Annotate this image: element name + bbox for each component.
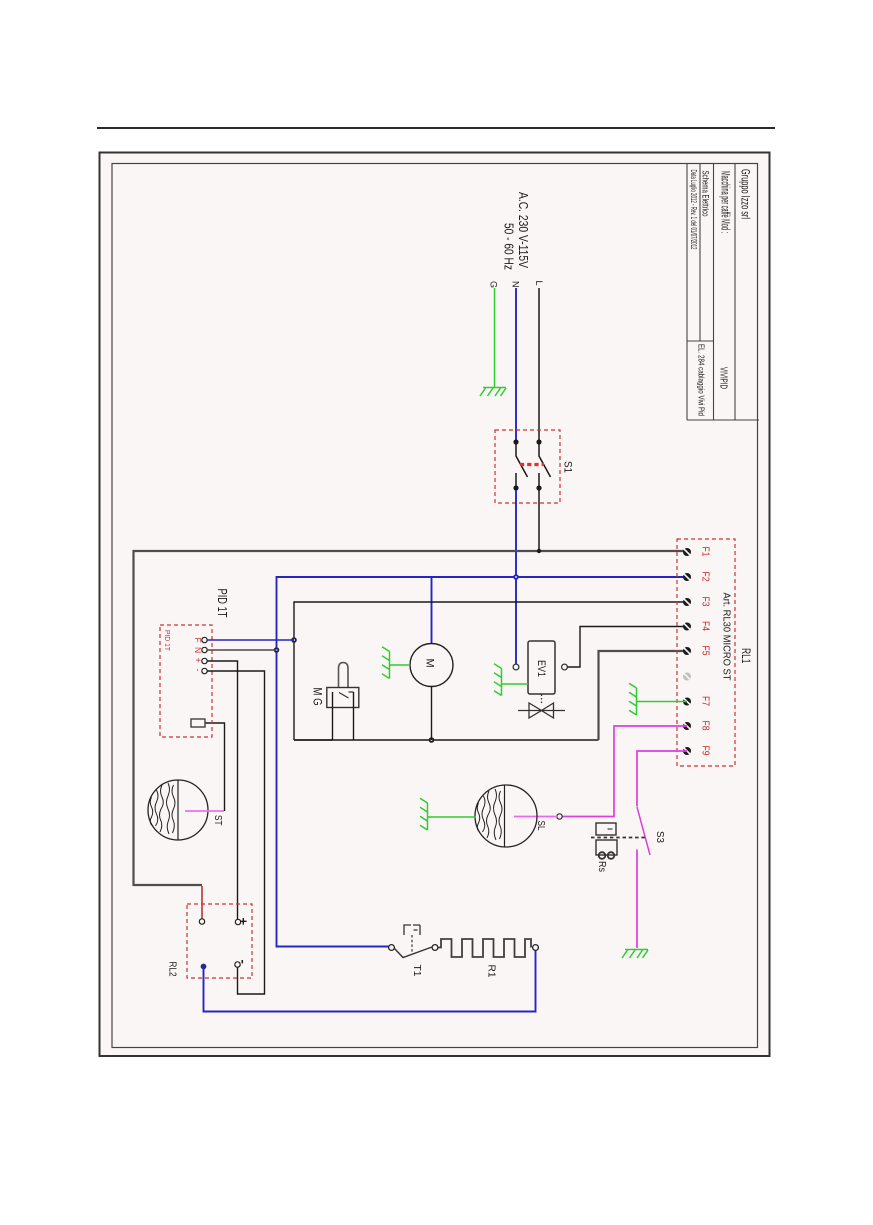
- wire F8 to SL: [562, 726, 687, 817]
- svg-text:50 - 60 Hz: 50 - 60 Hz: [502, 223, 516, 270]
- svg-text:+: +: [193, 658, 203, 663]
- svg-text:L: L: [534, 281, 544, 286]
- svg-text:F: F: [193, 638, 203, 643]
- node N junction S1: [513, 574, 519, 580]
- RL2 terminal plus: [235, 919, 240, 924]
- node motor junction: [429, 737, 435, 743]
- svg-text:F9: F9: [700, 746, 711, 756]
- PID terminal minus: [202, 668, 207, 673]
- valve outlet symbol: [518, 695, 565, 719]
- RL1 terminal F1: [683, 548, 691, 556]
- svg-text:R1: R1: [486, 965, 498, 978]
- svg-text:F3: F3: [700, 597, 711, 607]
- svg-text:-: -: [193, 669, 203, 672]
- wire PID N: [208, 649, 277, 651]
- svg-text:F7: F7: [700, 696, 711, 706]
- ground EV1: [494, 664, 502, 696]
- svg-text:VIVIPID: VIVIPID: [718, 367, 729, 389]
- ground motor: [382, 647, 390, 679]
- svg-text:EL. 284 cablaggio Vivi Pid: EL. 284 cablaggio Vivi Pid: [697, 344, 707, 416]
- ST water squiggles: [150, 783, 175, 834]
- drawing outer border frame: [100, 153, 770, 1057]
- drawing inner border frame: [112, 164, 758, 1048]
- page top rule: [97, 127, 775, 129]
- wire F9 to S3: [637, 751, 687, 807]
- wire SL ground: [428, 816, 476, 818]
- title block grid: [687, 164, 759, 421]
- PID terminal N: [202, 647, 207, 652]
- wire S3 to ground: [636, 850, 638, 949]
- wire ST magenta link: [185, 810, 224, 812]
- RL2 terminal out: [201, 964, 207, 970]
- wire F5 rail: [599, 651, 688, 740]
- wire MG pin 1: [332, 692, 334, 740]
- PID terminal plus: [202, 658, 207, 663]
- RL1 terminal F3: [683, 598, 691, 606]
- wire red to RL2: [201, 886, 203, 919]
- switch S1 enclosure: [495, 430, 560, 503]
- wire PID minus: [208, 671, 265, 994]
- RL1 terminal F5: [683, 647, 691, 655]
- svg-text:N: N: [193, 647, 203, 653]
- controller PID1T enclosure: [160, 625, 212, 737]
- RL1 terminal F7: [683, 698, 691, 706]
- node N junction PID: [274, 647, 280, 653]
- wire SL link: [514, 816, 557, 818]
- boiler temp sensor ST body: [148, 780, 208, 840]
- svg-text:F1: F1: [700, 547, 711, 557]
- wire bus corner to MG: [294, 739, 333, 741]
- switch S1 pole 2: [539, 444, 551, 486]
- RL1 terminal F8: [683, 722, 691, 730]
- heater R1 right terminal: [533, 945, 539, 951]
- switch S1 mechanical link: [520, 463, 544, 466]
- svg-text:Data Luglio 2012 - Rev. 1 del: Data Luglio 2012 - Rev. 1 del 01/07/2012: [689, 170, 698, 250]
- RL1 terminal F6 ghost: [683, 673, 691, 681]
- boiler level sensor SL body: [475, 785, 537, 847]
- ground SL: [420, 798, 428, 830]
- svg-text:T1: T1: [411, 965, 423, 977]
- wire PID F: [208, 639, 295, 641]
- EV1 pin left: [513, 664, 519, 670]
- wire G input: [494, 288, 496, 387]
- node F junction PID: [291, 637, 297, 643]
- ST chord: [177, 781, 179, 840]
- node L to F1: [537, 549, 541, 553]
- relay RL1 enclosure: [677, 539, 735, 766]
- switch MG blade: [339, 692, 354, 698]
- RL1 terminal F4: [683, 623, 691, 631]
- wire F4 rail: [568, 627, 688, 668]
- RL2 terminal minus: [235, 962, 240, 967]
- svg-text:PID 1T: PID 1T: [163, 630, 172, 651]
- svg-text:A.C. 230 V-115V: A.C. 230 V-115V: [516, 192, 530, 269]
- wire bottom bus: [294, 739, 599, 741]
- svg-text:S3: S3: [654, 831, 666, 843]
- SL chord: [504, 786, 506, 847]
- wire F3 rail: [294, 602, 687, 740]
- svg-text:EV1: EV1: [535, 660, 547, 677]
- svg-text:S1: S1: [562, 461, 574, 473]
- svg-text:Macchina per caffè Mod :: Macchina per caffè Mod :: [719, 171, 731, 233]
- svg-text:F2: F2: [700, 572, 711, 582]
- ground F7: [629, 683, 637, 715]
- wire PID plus: [208, 661, 238, 919]
- svg-text:F8: F8: [700, 721, 711, 731]
- RL1 terminal F2: [683, 573, 691, 581]
- PID probe body: [191, 719, 205, 727]
- wire L input: [538, 288, 540, 441]
- wire motor ground: [390, 664, 410, 666]
- wire MG pin 2: [353, 692, 355, 740]
- svg-text:G: G: [489, 281, 499, 288]
- svg-text:PID 1T: PID 1T: [215, 589, 230, 618]
- wire N input: [515, 288, 517, 441]
- svg-text:RL1: RL1: [739, 648, 753, 664]
- thermostat T1 blade: [395, 947, 433, 958]
- switch MG lever: [339, 663, 349, 688]
- EV1 pin right: [562, 664, 568, 670]
- solenoid EV1 body: [528, 641, 555, 694]
- wire N to motor: [431, 577, 433, 644]
- svg-text:+: +: [236, 918, 251, 926]
- reed sensor Rs body: [596, 823, 617, 859]
- RL1 terminal F9: [683, 747, 691, 755]
- svg-text:F5: F5: [700, 646, 711, 656]
- svg-text:RL2: RL2: [167, 962, 179, 977]
- svg-text:SL: SL: [535, 821, 547, 831]
- wire EV1 ground: [502, 683, 528, 685]
- svg-text:F4: F4: [700, 621, 711, 631]
- wire N rail to F2: [277, 577, 688, 947]
- thermostat T1 terminal 2: [432, 945, 438, 951]
- switch MG body: [327, 688, 359, 708]
- ground S3: [622, 950, 648, 959]
- svg-text:-: -: [236, 960, 251, 964]
- wire F1 rail: [134, 551, 688, 885]
- svg-text:Schema Elettrico: Schema Elettrico: [700, 171, 711, 217]
- svg-text:Rs: Rs: [596, 861, 608, 872]
- thermostat T1 actuator link: [411, 935, 413, 953]
- svg-text:Gruppo Izzo srl: Gruppo Izzo srl: [739, 169, 751, 219]
- Rs to S3 mechanical link: [591, 837, 646, 839]
- switch S1 contacts: [513, 439, 541, 490]
- wire F7 to ground: [637, 701, 687, 703]
- relay RL2 enclosure: [187, 904, 252, 978]
- svg-text:M: M: [424, 659, 436, 668]
- svg-text:ST: ST: [212, 815, 224, 826]
- svg-text:M G: M G: [311, 688, 325, 706]
- switch S3 blade: [637, 807, 650, 855]
- SL water squiggles: [477, 789, 502, 840]
- ground G input: [480, 388, 506, 397]
- wire N from S1 to EV1: [515, 490, 517, 664]
- motor M body: [410, 644, 453, 687]
- RL2 terminal coil L: [199, 919, 204, 924]
- wire PID probe: [205, 723, 225, 811]
- wire motor to bus: [431, 687, 433, 741]
- wire heater return blue: [204, 951, 536, 1012]
- thermostat T1 terminal 1: [389, 945, 395, 951]
- wire L from S1 to F1 rail: [538, 490, 540, 551]
- SL wire terminal: [557, 814, 562, 819]
- heater R1 element: [438, 939, 531, 957]
- switch S1 pole 1: [516, 444, 528, 486]
- PID terminal F: [202, 637, 207, 642]
- thermostat T1 sensor head: [404, 925, 420, 935]
- svg-text:N: N: [511, 281, 521, 288]
- svg-text:Art. RL30 MICRO ST: Art. RL30 MICRO ST: [721, 593, 732, 681]
